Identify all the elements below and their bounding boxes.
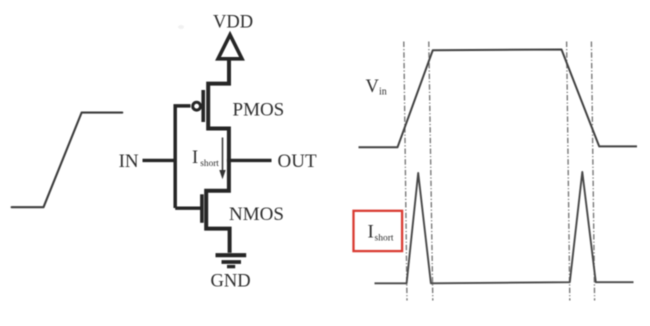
transistor Q2 NMOS body and OUT/GND leads: [206, 159, 229, 253]
dash-dot line t1: [404, 42, 407, 301]
wire gate rail: [175, 106, 190, 208]
svg-text:V: V: [366, 77, 380, 97]
transistor Q1 PMOS body and VDD/OUT leads: [208, 57, 229, 163]
ground symbol: [216, 255, 247, 266]
svg-text:short: short: [200, 159, 219, 169]
label Ishort red box: [354, 211, 403, 251]
dash-dot line t4: [591, 42, 594, 301]
wire IN: [143, 159, 177, 162]
svg-text:short: short: [375, 234, 394, 244]
dash-dot line t2: [429, 42, 433, 301]
input ramp waveform: [12, 113, 123, 208]
scan smudge: [178, 25, 184, 29]
wire OUT: [229, 159, 272, 162]
waveform Vin: [359, 50, 638, 148]
waveform Ishort: [375, 172, 634, 283]
wire NMOS gate stub: [175, 206, 201, 209]
svg-text:NMOS: NMOS: [229, 204, 284, 225]
svg-text:IN: IN: [119, 151, 139, 172]
transistor Q1 PMOS gate bubble: [193, 102, 201, 110]
power VDD triangle: [218, 35, 242, 59]
svg-text:in: in: [379, 87, 387, 98]
dash-dot line t3: [567, 42, 570, 301]
svg-text:GND: GND: [211, 272, 251, 292]
svg-text:VDD: VDD: [213, 13, 253, 33]
svg-text:I: I: [368, 222, 374, 243]
current arrow I short: [219, 138, 225, 180]
transistor Q1 PMOS gate bar: [201, 90, 205, 122]
svg-text:PMOS: PMOS: [233, 99, 285, 120]
transistor Q2 NMOS gate bar: [200, 194, 204, 223]
svg-text:OUT: OUT: [278, 151, 317, 172]
svg-text:I: I: [192, 148, 198, 168]
